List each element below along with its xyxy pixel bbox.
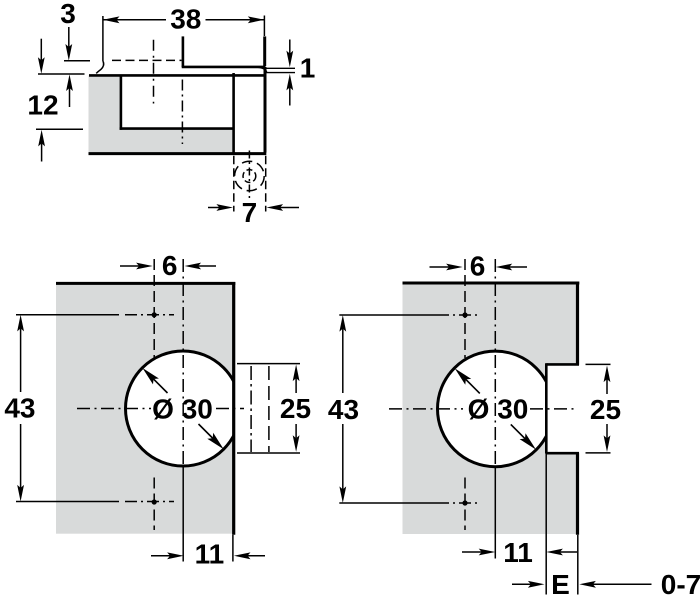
dim 43 left bottom extension — [16, 501, 119, 503]
screw line dashed lower right drawing — [464, 478, 466, 531]
door panel gray — [56, 283, 234, 534]
dim 38 left extension line — [102, 16, 104, 61]
dim 6 left text — [162, 250, 178, 281]
dim 43 left line with arrows — [17, 315, 24, 502]
panel right edge extension below — [232, 535, 234, 562]
screw dot top horizontal dash-dot — [125, 314, 174, 316]
svg-text:E: E — [551, 569, 570, 600]
panel top edge right drawing — [403, 282, 580, 285]
screw channel dashed extension right — [265, 156, 267, 212]
flange bottom extension line — [264, 72, 295, 74]
dim 25 left text — [280, 393, 311, 424]
hinge arm side dashed — [268, 366, 270, 452]
notch white — [547, 365, 578, 453]
dim 7 text — [242, 197, 258, 228]
screw shank hidden circle — [243, 170, 256, 183]
svg-text:Ø 30: Ø 30 — [468, 393, 529, 424]
svg-text:11: 11 — [195, 538, 225, 569]
svg-text:43: 43 — [328, 394, 359, 425]
cup outer right edge — [264, 67, 267, 153]
dim 12 lower reference tick — [36, 128, 83, 130]
dim 43 left text — [4, 393, 35, 424]
dim 11 right text — [503, 537, 533, 568]
break squiggle — [96, 61, 103, 73]
dia 30 label — [152, 393, 213, 424]
svg-text:0-7: 0-7 — [661, 569, 700, 600]
dim 43 right text — [328, 394, 359, 425]
flange rounded right end — [258, 67, 267, 72]
cup cavity left wall — [120, 76, 123, 130]
screw channel dashed extension left — [233, 156, 235, 212]
door panel gray with notch — [403, 283, 578, 534]
dim 1 upper arrow — [286, 40, 293, 68]
dia leader arrow lower-right — [199, 424, 224, 449]
hinge arm side dash-dot — [250, 366, 252, 452]
dim 25 right bottom extension — [586, 452, 611, 454]
cup horizontal center line left — [77, 408, 151, 410]
dim E value 0-7 — [661, 569, 700, 600]
cup center extension solid right drawing — [494, 466, 496, 559]
screw dot bottom horizontal right drawing — [437, 502, 481, 504]
svg-text:11: 11 — [503, 537, 533, 568]
dim 25 right top extension — [586, 363, 611, 365]
cup center line — [181, 80, 183, 145]
dim 12 lower arrow — [38, 130, 45, 162]
hinge arm top edge left drawing — [237, 363, 300, 365]
cup center line right drawing — [494, 259, 496, 466]
hinge arm bottom edge left drawing — [237, 452, 300, 454]
dia leader arrow upper-left — [143, 368, 168, 393]
hinge arm box bottom / flange top — [182, 66, 266, 69]
svg-text:25: 25 — [280, 393, 311, 424]
cup hole circle right — [438, 351, 554, 467]
cup center line vertical dash-dot — [182, 259, 184, 466]
panel right edge lower segment — [576, 453, 579, 535]
screw dot bottom horizontal dash-dot — [125, 501, 174, 503]
dim 43 right line with arrows — [339, 315, 346, 503]
screw head hidden circle — [235, 161, 265, 191]
dim 12 upper arrow — [38, 39, 45, 74]
dim 38 line with arrows — [103, 16, 265, 23]
dim 1 text — [300, 52, 316, 83]
panel gray L-shape — [89, 76, 234, 154]
dim 38 right extension line — [263, 16, 265, 37]
dim 11 left line with arrows — [151, 552, 265, 559]
dim 3 lower arrow — [66, 74, 73, 107]
svg-text:7: 7 — [242, 197, 258, 228]
dim 25 right text — [590, 394, 621, 425]
cup horizontal center right part right drawing — [530, 408, 577, 410]
dim 43 left top extension — [16, 314, 119, 316]
svg-text:6: 6 — [470, 250, 486, 281]
dim 1 lower arrow — [286, 74, 293, 106]
dim E line with arrows — [512, 581, 652, 588]
screw line dashed lower — [153, 478, 155, 531]
notch bottom edge — [546, 452, 579, 455]
svg-text:3: 3 — [60, 0, 76, 29]
dia leader arrow upper-left right drawing — [455, 368, 480, 393]
dim 25 right arrows — [604, 366, 611, 453]
dim 38 text — [170, 4, 201, 35]
dia 30 label right drawing — [468, 393, 529, 424]
cup hole circle — [126, 351, 241, 466]
svg-text:Ø 30: Ø 30 — [152, 393, 213, 424]
dim 25 left arrows — [293, 365, 300, 452]
cup horizontal center left part right drawing — [389, 408, 463, 410]
dim 11 left text — [195, 538, 225, 569]
screw line dashed upper — [153, 259, 155, 358]
screw dot top right drawing — [462, 312, 467, 317]
dim 6 right: line with arrows — [430, 264, 528, 271]
svg-text:6: 6 — [162, 250, 178, 281]
screw hidden dashed vertical — [153, 40, 155, 104]
screw dot bottom right drawing — [462, 500, 467, 505]
panel right edge — [232, 282, 235, 535]
svg-text:25: 25 — [590, 394, 621, 425]
screw dot top horizontal right drawing — [437, 314, 481, 316]
flange hidden dashed line — [112, 59, 182, 61]
svg-text:38: 38 — [170, 4, 201, 35]
dim 43 right top extension — [339, 314, 437, 316]
cup center extension solid — [182, 466, 184, 562]
cup right wall — [232, 73, 235, 153]
cup cavity bottom — [120, 127, 235, 130]
screw axis center line — [248, 151, 250, 202]
screw dot top — [152, 312, 157, 317]
panel right extension below — [577, 535, 579, 595]
svg-text:1: 1 — [300, 52, 316, 83]
dia leader arrow lower-right right drawing — [511, 424, 536, 449]
panel bottom line — [89, 152, 267, 155]
svg-text:12: 12 — [27, 89, 58, 120]
hinge arm box right edge — [263, 36, 266, 66]
notch left extension below — [545, 454, 547, 595]
notch left edge — [545, 363, 548, 453]
dim E text — [551, 569, 570, 600]
dim 3 reference tick upper — [64, 60, 90, 62]
dim 6 right text — [470, 250, 486, 281]
dim 7 line with arrows — [208, 204, 299, 211]
panel right edge upper segment — [576, 282, 579, 365]
dim 6 left: line with arrows — [120, 263, 216, 270]
dim 12 text — [27, 89, 58, 120]
dim 3 upper arrow — [65, 27, 72, 61]
hinge arm box left edge — [182, 36, 185, 67]
dim 11 right line with arrows — [462, 549, 577, 556]
screw dot bottom — [152, 499, 157, 504]
notch top edge — [546, 363, 579, 366]
flange top extension line — [266, 67, 295, 69]
cup horizontal center line right — [216, 408, 244, 410]
dim 3 text — [60, 0, 76, 29]
dim 43 right bottom extension — [339, 502, 437, 504]
panel top surface line — [89, 74, 265, 77]
dim 3/12 reference tick surface — [38, 73, 85, 75]
panel top edge — [56, 282, 235, 285]
svg-text:43: 43 — [4, 393, 35, 424]
screw line dashed upper right drawing — [464, 259, 466, 358]
